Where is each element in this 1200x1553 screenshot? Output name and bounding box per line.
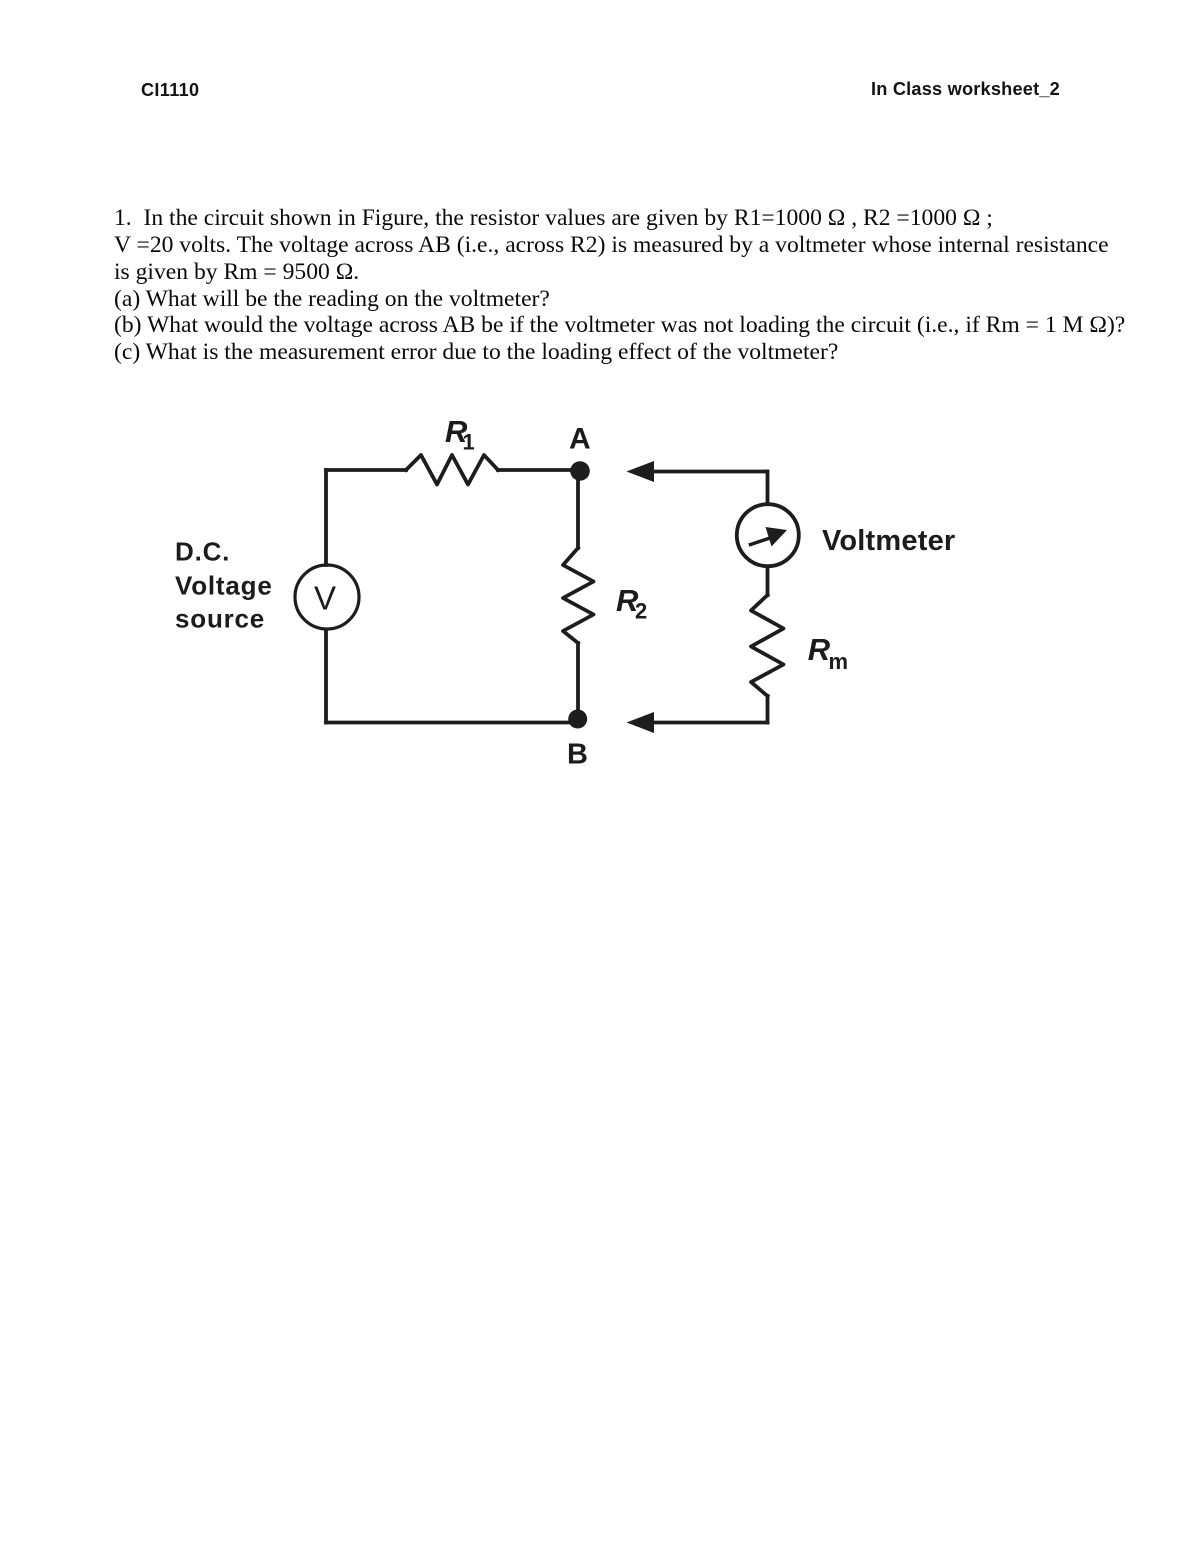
- svg-text:m: m: [829, 649, 849, 674]
- svg-text:2: 2: [635, 599, 647, 624]
- svg-text:Voltage: Voltage: [175, 571, 273, 601]
- svg-text:1: 1: [463, 430, 475, 455]
- svg-text:source: source: [175, 604, 265, 634]
- svg-text:R: R: [808, 632, 831, 667]
- svg-text:Voltmeter: Voltmeter: [822, 525, 955, 557]
- svg-text:V: V: [314, 580, 336, 617]
- svg-text:B: B: [567, 739, 588, 771]
- svg-text:A: A: [569, 423, 591, 456]
- svg-text:D.C.: D.C.: [175, 537, 230, 567]
